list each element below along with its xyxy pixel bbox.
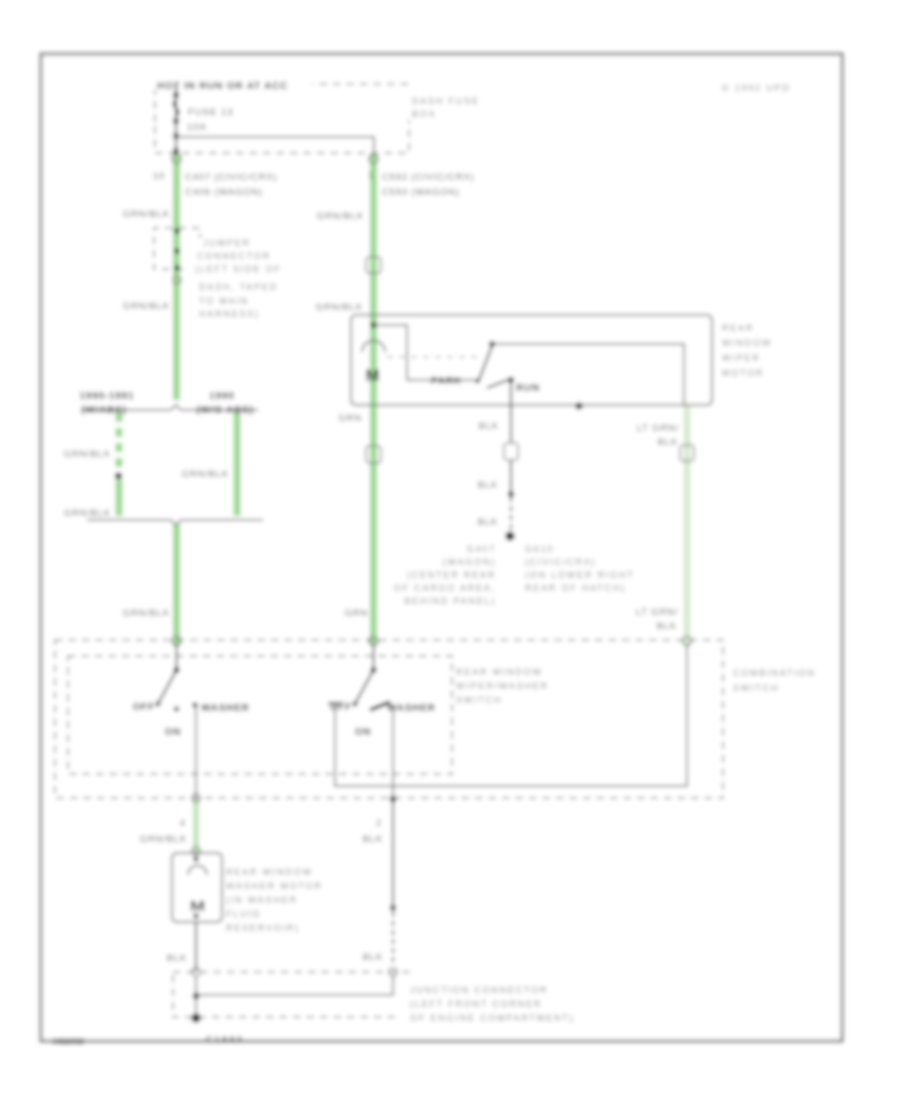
- svg-text:GRN/BLK: GRN/BLK: [123, 301, 170, 312]
- svg-text:G610: G610: [525, 544, 554, 554]
- svg-text:G407: G407: [467, 544, 496, 554]
- svg-text:LT GRN/: LT GRN/: [637, 423, 679, 434]
- pin ring W2 at switch: [369, 637, 378, 646]
- svg-text:BLK: BLK: [657, 621, 677, 632]
- svg-text:BLK: BLK: [658, 437, 678, 448]
- svg-text:JUMPER: JUMPER: [203, 238, 251, 248]
- svg-text:REAR WINDOW: REAR WINDOW: [226, 867, 313, 877]
- ground dot: [505, 531, 514, 540]
- svg-text:RUN: RUN: [516, 383, 540, 394]
- page border frame: [41, 54, 842, 1041]
- pin ring W1 at fuse box: [172, 155, 181, 164]
- inline connector on BLK wire: [504, 443, 518, 460]
- branch left solid GRN/BLK wire: [116, 480, 123, 516]
- svg-text:DASH, TAPED: DASH, TAPED: [199, 282, 278, 292]
- svg-text:WINDOW: WINDOW: [722, 338, 772, 348]
- motor M1 circle: [362, 341, 385, 352]
- svg-text:FUSE 13: FUSE 13: [188, 107, 234, 118]
- svg-text:GRN: GRN: [338, 413, 362, 424]
- svg-text:WASHER MOTOR: WASHER MOTOR: [226, 881, 323, 891]
- motor M1 node dot: [371, 322, 377, 328]
- wire W1 GRN/BLK vertical (merge to combination switch): [173, 524, 180, 646]
- washer motor top pin dot: [193, 856, 198, 861]
- svg-text:GRN/BLK: GRN/BLK: [123, 608, 170, 619]
- svg-text:SWITCH: SWITCH: [733, 683, 779, 693]
- svg-text:10: 10: [153, 171, 165, 182]
- svg-text:CONNECTOR: CONNECTOR: [197, 251, 271, 261]
- BLK dashed segment: [510, 497, 512, 530]
- WASHER contact SW1: [192, 702, 197, 707]
- inline connector on W2: [366, 446, 381, 463]
- washer motor box: [172, 853, 222, 922]
- svg-text:COMBINATION: COMBINATION: [733, 668, 816, 678]
- svg-text:© 1992 UPD: © 1992 UPD: [722, 83, 791, 93]
- wire GRN/BLK (combination switch to washer motor): [193, 798, 199, 852]
- svg-text:C1990: C1990: [206, 1035, 245, 1044]
- washer switch SW1: [176, 645, 178, 669]
- svg-text:WASHER: WASHER: [201, 703, 250, 714]
- svg-text:BLK: BLK: [167, 953, 187, 964]
- combination switch inner dashed box: [68, 656, 452, 774]
- svg-text:BLK: BLK: [363, 834, 383, 845]
- svg-text:(CIVIC/CRX): (CIVIC/CRX): [525, 557, 596, 567]
- svg-text:GRN/BLK: GRN/BLK: [317, 211, 364, 222]
- svg-text:(IN WASHER: (IN WASHER: [226, 895, 298, 905]
- svg-text:C407 (CIVIC/CRX): C407 (CIVIC/CRX): [185, 172, 278, 183]
- svg-text:C593 (WAGON): C593 (WAGON): [382, 187, 460, 198]
- svg-text:GRN/BLK: GRN/BLK: [64, 508, 111, 519]
- svg-text:(LEFT SIDE OF: (LEFT SIDE OF: [195, 264, 282, 274]
- park switch feed wire: [374, 325, 478, 380]
- park contact lead: [475, 379, 479, 383]
- pin ring W1 at switch: [172, 637, 181, 646]
- pin ring washer motor: [192, 847, 200, 855]
- OFF contact return wire: [335, 644, 687, 786]
- svg-text:(CENTER REAR: (CENTER REAR: [407, 570, 496, 580]
- svg-text:GRN/BLK: GRN/BLK: [64, 449, 111, 460]
- svg-text:ON: ON: [355, 727, 372, 738]
- svg-text:4: 4: [180, 818, 186, 829]
- svg-text:REAR: REAR: [722, 323, 754, 333]
- wire LT GRN/BLK vertical (wiper motor to combination switch): [684, 405, 691, 645]
- svg-text:BLK: BLK: [478, 480, 498, 491]
- pin ring junction left: [192, 968, 200, 976]
- WASHER contact SW2: [370, 702, 390, 710]
- pin dot at box bottom: [390, 796, 396, 802]
- svg-text:C406 (WAGON): C406 (WAGON): [185, 187, 263, 198]
- wiper motor box: [351, 315, 712, 405]
- svg-text:ON: ON: [165, 727, 182, 738]
- inline connector on W2 upper: [366, 257, 381, 273]
- branch left dashed GRN/BLK wire: [116, 413, 123, 472]
- svg-text:BLK: BLK: [479, 421, 499, 432]
- branch right GRN/BLK wire: [234, 413, 241, 516]
- svg-text:(WAGON): (WAGON): [443, 557, 496, 567]
- svg-text:GRN/BLK: GRN/BLK: [123, 209, 170, 220]
- svg-text:10A: 10A: [187, 122, 207, 133]
- svg-text:GRN/BLK: GRN/BLK: [140, 834, 187, 845]
- svg-text:C592 (CIVIC/CRX): C592 (CIVIC/CRX): [382, 172, 475, 183]
- svg-text:1990: 1990: [209, 391, 234, 402]
- svg-text:PARK: PARK: [431, 376, 462, 387]
- svg-text:REAR WINDOW: REAR WINDOW: [456, 667, 543, 677]
- splice dot left branch: [115, 472, 122, 479]
- svg-text:GRN/BLK: GRN/BLK: [182, 469, 229, 480]
- svg-text:SWITCH: SWITCH: [456, 695, 502, 705]
- svg-text:GRN/BLK: GRN/BLK: [316, 302, 363, 313]
- pin ring washer feed: [192, 794, 200, 802]
- BLK wire segment: [510, 460, 512, 491]
- svg-text:JUNCTION CONNECTOR: JUNCTION CONNECTOR: [410, 985, 548, 995]
- junction connector dashed box: [173, 972, 410, 1017]
- washer ground wire SW2 down: [389, 704, 393, 798]
- svg-text:(ON LOWER RIGHT: (ON LOWER RIGHT: [525, 570, 635, 580]
- svg-text:FLUID: FLUID: [226, 909, 261, 919]
- wiper switch SW2: [373, 645, 375, 669]
- svg-text:TO MAIN: TO MAIN: [199, 296, 249, 306]
- svg-text:BLK: BLK: [363, 952, 383, 963]
- BLK wire below washer motor: [195, 922, 197, 972]
- branch split bar: [81, 405, 258, 410]
- svg-text:LT GRN/: LT GRN/: [636, 607, 678, 618]
- pin ring below jumper connector: [173, 276, 181, 284]
- junction dot on box bottom: [575, 402, 582, 409]
- svg-text:BOX: BOX: [412, 109, 436, 119]
- svg-text:OF ENGINE COMPARTMENT): OF ENGINE COMPARTMENT): [410, 1013, 574, 1023]
- mechanical linkage dashes: [387, 356, 482, 358]
- svg-text:WASHER: WASHER: [387, 703, 436, 714]
- splice dot: [508, 491, 514, 497]
- washer feed wire SW1 down: [195, 706, 197, 798]
- svg-text:2: 2: [376, 818, 382, 829]
- svg-text:MOTOR: MOTOR: [722, 368, 764, 378]
- svg-text:GRN: GRN: [344, 608, 368, 619]
- svg-text:(W/O ABS): (W/O ABS): [196, 405, 253, 416]
- fuse output bus wire: [176, 137, 374, 152]
- svg-text:RESERVOIR): RESERVOIR): [226, 923, 300, 933]
- svg-text:BLK: BLK: [478, 517, 498, 528]
- svg-text:WIPER: WIPER: [722, 353, 761, 363]
- pin ring LT GRN at switch: [683, 637, 692, 646]
- svg-text:REAR OF HATCH): REAR OF HATCH): [525, 583, 626, 593]
- svg-text:DASH FUSE: DASH FUSE: [412, 96, 480, 106]
- inline connector on LT GRN wire: [680, 445, 694, 461]
- svg-text:1: 1: [368, 170, 374, 181]
- junction internal wires: [196, 976, 393, 995]
- washer motor M2 circle: [188, 866, 207, 876]
- switch common wire to right pin: [492, 344, 684, 405]
- svg-text:BEHIND PANEL): BEHIND PANEL): [404, 596, 496, 606]
- BLK wire from run contact: [510, 381, 512, 442]
- fuse 13 element: [175, 84, 177, 152]
- pin ring W2 at fuse box: [369, 155, 378, 164]
- pin ring junction right: [389, 968, 397, 976]
- park switch arm: [479, 346, 492, 380]
- svg-text:M: M: [190, 898, 205, 915]
- svg-text:H92058: H92058: [53, 1037, 84, 1046]
- svg-text:(LEFT FRONT CORNER: (LEFT FRONT CORNER: [410, 999, 542, 1009]
- run contact: [487, 378, 513, 388]
- junction terminal dot: [191, 1013, 200, 1022]
- combination switch outer dashed box: [55, 640, 723, 798]
- jumper connector dashed box: [154, 228, 186, 269]
- washer motor bottom terminal dot: [193, 913, 198, 918]
- svg-text:M: M: [365, 366, 379, 385]
- svg-text:HARNESS): HARNESS): [199, 309, 260, 319]
- dash fuse box (dashed): [155, 84, 409, 153]
- branch merge bar: [87, 520, 263, 525]
- svg-text:WIPER/WASHER: WIPER/WASHER: [456, 681, 549, 691]
- svg-text:OFF: OFF: [133, 702, 155, 713]
- svg-text:1990-1991: 1990-1991: [79, 391, 134, 402]
- wire W1 GRN/BLK vertical (fuse to branch): [173, 153, 180, 400]
- svg-text:OF CARGO AREA,: OF CARGO AREA,: [394, 583, 496, 593]
- wire W2 GRN/BLK then GRN vertical (fuse through wiper motor to switch): [370, 153, 377, 646]
- BLK wire from switch to junction: [392, 801, 394, 907]
